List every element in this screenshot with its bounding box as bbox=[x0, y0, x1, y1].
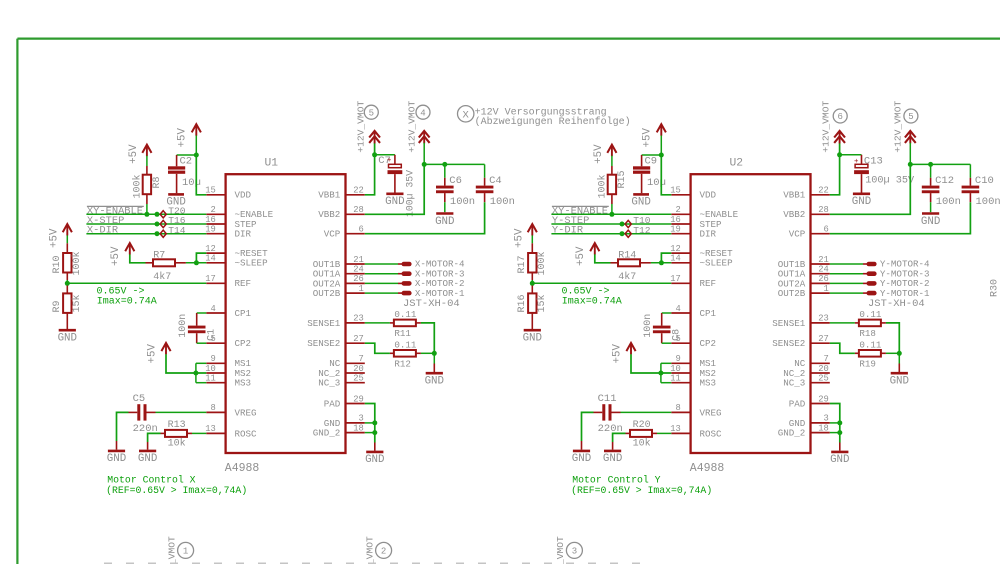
svg-text:17: 17 bbox=[670, 274, 681, 284]
capacitor C1 100n bbox=[188, 313, 206, 343]
pin 8 VREG of U1 bbox=[206, 403, 256, 418]
pin 24 OUT1A of U1 bbox=[313, 265, 365, 280]
junction bbox=[372, 420, 377, 425]
junction bbox=[659, 153, 664, 158]
wire bbox=[531, 280, 533, 283]
supply +5V above R7 bbox=[125, 243, 134, 255]
svg-text:4: 4 bbox=[211, 304, 216, 314]
supply +5V above R10 bbox=[63, 224, 72, 236]
resistor R10 100k bbox=[63, 243, 71, 280]
pin 12 ~RESET of U2 bbox=[670, 244, 733, 259]
wire bbox=[196, 382, 206, 384]
wire bbox=[660, 363, 662, 382]
wire bbox=[374, 443, 376, 451]
svg-text:15: 15 bbox=[670, 186, 681, 196]
junction bbox=[432, 351, 437, 356]
resistor R20 10k bbox=[626, 430, 658, 437]
testpoint T12 bbox=[625, 230, 631, 237]
wire bbox=[612, 442, 614, 450]
pin 13 ROSC of U1 bbox=[205, 424, 257, 439]
svg-text:10µ: 10µ bbox=[647, 177, 666, 189]
pin 2 ~ENABLE of U1 bbox=[206, 205, 273, 220]
svg-text:~SLEEP: ~SLEEP bbox=[235, 258, 269, 269]
svg-text:CP2: CP2 bbox=[235, 338, 252, 349]
wire bbox=[186, 262, 206, 264]
svg-text:17: 17 bbox=[205, 274, 216, 284]
wire bbox=[621, 411, 672, 413]
wire bbox=[421, 352, 434, 354]
circled number 2 bbox=[376, 542, 392, 558]
svg-text:Motor Control X: Motor Control X bbox=[107, 474, 195, 485]
ground under PAD bbox=[365, 452, 384, 466]
pin 6 VCP of U2 bbox=[789, 225, 830, 240]
svg-text:26: 26 bbox=[818, 274, 829, 284]
svg-text:GND_2: GND_2 bbox=[778, 428, 806, 439]
svg-text:X-DIR: X-DIR bbox=[87, 225, 118, 237]
svg-text:100k: 100k bbox=[132, 174, 144, 198]
svg-text:GND: GND bbox=[523, 333, 542, 345]
svg-text:5: 5 bbox=[908, 112, 913, 122]
svg-text:VBB2: VBB2 bbox=[783, 209, 805, 220]
pin 12 ~RESET of U1 bbox=[205, 244, 268, 259]
wire bbox=[66, 280, 68, 283]
pin 28 VBB2 of U1 bbox=[318, 205, 365, 220]
supply +5V above R14 bbox=[590, 243, 599, 255]
circled number 6 bbox=[833, 109, 847, 123]
svg-text:100n: 100n bbox=[450, 196, 475, 208]
junction bbox=[194, 153, 199, 158]
junction bbox=[194, 260, 199, 265]
svg-text:GND: GND bbox=[852, 196, 871, 208]
pin 1 OUT2B of U2 bbox=[778, 284, 830, 299]
svg-text:A4988: A4988 bbox=[225, 462, 260, 475]
circled number 5 bbox=[364, 105, 378, 119]
connector pin Y-MOTOR-2 bbox=[830, 278, 930, 289]
wire bbox=[840, 154, 862, 156]
pin 11 MS3 of U2 bbox=[670, 374, 716, 389]
svg-text:0.11: 0.11 bbox=[859, 309, 882, 320]
pin 11 MS3 of U1 bbox=[205, 374, 251, 389]
wire rail bbox=[910, 163, 970, 165]
wire net GND bbox=[830, 404, 840, 443]
svg-text:R8: R8 bbox=[152, 176, 163, 188]
svg-text:VBB2: VBB2 bbox=[318, 209, 340, 220]
svg-text:8: 8 bbox=[211, 403, 216, 413]
wire bbox=[660, 136, 662, 156]
svg-text:29: 29 bbox=[818, 394, 829, 404]
wire bbox=[611, 204, 613, 214]
wire bbox=[423, 143, 425, 165]
ground under R9 bbox=[58, 330, 77, 344]
wire bbox=[662, 342, 672, 344]
svg-text:100k: 100k bbox=[71, 251, 83, 275]
capacitor C9 10u bbox=[633, 155, 650, 193]
capacitor C2 10u bbox=[168, 155, 185, 193]
svg-text:4: 4 bbox=[420, 108, 425, 118]
svg-text:CP1: CP1 bbox=[235, 308, 252, 319]
wire bbox=[66, 235, 68, 243]
pin 14 ~SLEEP of U1 bbox=[205, 254, 268, 269]
svg-text:X-MOTOR-1: X-MOTOR-1 bbox=[415, 288, 465, 299]
wire bbox=[661, 253, 671, 263]
svg-text:7: 7 bbox=[824, 354, 829, 364]
testpoint T16 bbox=[160, 220, 166, 227]
svg-text:+12V_VMOT: +12V_VMOT bbox=[407, 101, 418, 153]
note circled X bbox=[458, 106, 474, 122]
svg-text:4: 4 bbox=[676, 304, 681, 314]
pin 9 MS1 of U2 bbox=[671, 354, 716, 369]
svg-text:GND: GND bbox=[890, 376, 909, 388]
capacitor C8 100n bbox=[653, 313, 671, 343]
supply +5V above R17 bbox=[528, 224, 537, 236]
ground under sense resistors bbox=[425, 373, 444, 387]
supply +12V_VMOT bbox=[905, 131, 916, 144]
svg-text:21: 21 bbox=[818, 255, 829, 265]
svg-text:Imax=0.74A: Imax=0.74A bbox=[97, 296, 157, 307]
svg-text:C11: C11 bbox=[598, 393, 617, 405]
svg-text:2: 2 bbox=[676, 205, 681, 215]
junction bbox=[372, 152, 377, 157]
wire bbox=[662, 312, 672, 314]
svg-text:MS3: MS3 bbox=[700, 378, 717, 389]
ground under C11 bbox=[572, 451, 591, 465]
junction bbox=[658, 371, 663, 376]
connector pin Y-MOTOR-1 bbox=[830, 288, 930, 299]
wire bbox=[631, 354, 671, 373]
connector pin X-MOTOR-1 bbox=[365, 288, 465, 299]
pin 15 VDD of U2 bbox=[670, 186, 716, 201]
svg-text:R15: R15 bbox=[617, 170, 628, 188]
pin 19 DIR of U1 bbox=[205, 225, 251, 240]
svg-text:23: 23 bbox=[818, 314, 829, 324]
pin 27 SENSE2 of U1 bbox=[307, 334, 365, 349]
wire net SENSE2 bbox=[365, 343, 390, 353]
ground under C13 bbox=[852, 194, 871, 208]
svg-text:24: 24 bbox=[818, 265, 829, 275]
ground under sense resistors bbox=[890, 373, 909, 387]
junction bbox=[155, 212, 160, 217]
wire net X-STEP bbox=[86, 223, 206, 225]
pin 26 OUT2A of U2 bbox=[778, 274, 830, 289]
junction bbox=[837, 152, 842, 157]
svg-text:GND: GND bbox=[365, 454, 384, 466]
svg-text:19: 19 bbox=[205, 225, 216, 235]
wire bbox=[642, 154, 662, 156]
svg-text:C1: C1 bbox=[207, 329, 218, 341]
svg-text:VCP: VCP bbox=[789, 229, 806, 240]
svg-text:Imax=0.74A: Imax=0.74A bbox=[562, 296, 622, 307]
svg-text:15: 15 bbox=[205, 186, 216, 196]
svg-text:100n: 100n bbox=[643, 314, 654, 338]
wire bbox=[433, 364, 435, 373]
wire net X-DIR bbox=[86, 233, 206, 235]
svg-text:GND: GND bbox=[631, 197, 650, 209]
connector pin X-MOTOR-4 bbox=[365, 259, 465, 270]
wire bbox=[611, 156, 613, 166]
supply +5V for MS pins bbox=[626, 343, 635, 355]
wire bbox=[365, 164, 424, 214]
svg-text:(REF=0.65V > Imax=0,74A): (REF=0.65V > Imax=0,74A) bbox=[106, 485, 247, 496]
svg-text:+5V: +5V bbox=[593, 144, 605, 164]
svg-text:VBB1: VBB1 bbox=[318, 190, 341, 201]
svg-text:+5V: +5V bbox=[110, 246, 122, 266]
junction bbox=[442, 162, 447, 167]
svg-text:REF: REF bbox=[700, 278, 717, 289]
wire bbox=[116, 441, 118, 450]
wire bbox=[830, 422, 840, 424]
svg-text:VREG: VREG bbox=[235, 407, 257, 418]
svg-text:0.11: 0.11 bbox=[394, 340, 417, 351]
svg-text:100µ 35V: 100µ 35V bbox=[404, 170, 415, 217]
wire bbox=[582, 412, 594, 441]
junction bbox=[422, 162, 427, 167]
svg-text:+5V: +5V bbox=[642, 128, 654, 148]
wire bbox=[365, 432, 375, 434]
wire bbox=[146, 204, 148, 214]
pin 16 STEP of U1 bbox=[205, 215, 257, 230]
resistor R11 0.11 bbox=[390, 320, 421, 327]
wire net SENSE1 bbox=[830, 322, 855, 324]
svg-text:PAD: PAD bbox=[789, 398, 806, 409]
svg-text:Y-MOTOR-1: Y-MOTOR-1 bbox=[880, 288, 930, 299]
wire net Y-STEP bbox=[551, 223, 671, 225]
pin 7 NC of U1 bbox=[329, 354, 365, 369]
junction node REF bbox=[530, 281, 535, 286]
ground under R20 bbox=[603, 451, 622, 465]
svg-text:+5V: +5V bbox=[146, 344, 158, 364]
svg-text:24: 24 bbox=[353, 265, 364, 275]
ground under R16 bbox=[523, 330, 542, 344]
svg-text:CP1: CP1 bbox=[700, 308, 717, 319]
svg-text:10: 10 bbox=[205, 364, 216, 374]
svg-text:+5V: +5V bbox=[514, 228, 526, 248]
connector pin Y-MOTOR-4 bbox=[830, 259, 930, 270]
svg-text:100n: 100n bbox=[976, 196, 1000, 208]
pin 22 VBB1 of U2 bbox=[783, 186, 830, 201]
wire bbox=[898, 364, 900, 373]
svg-text:15k: 15k bbox=[536, 294, 548, 312]
connector pin Y-MOTOR-3 bbox=[830, 268, 930, 279]
pin 27 SENSE2 of U2 bbox=[772, 334, 830, 349]
svg-text:22: 22 bbox=[353, 186, 364, 196]
svg-text:25: 25 bbox=[353, 374, 364, 384]
svg-text:1: 1 bbox=[824, 284, 829, 294]
wire bbox=[195, 363, 197, 382]
pin 1 OUT2B of U1 bbox=[313, 284, 365, 299]
pin 28 VBB2 of U2 bbox=[783, 205, 830, 220]
wire bbox=[661, 362, 671, 364]
svg-text:DIR: DIR bbox=[235, 229, 252, 240]
svg-text:21: 21 bbox=[353, 255, 364, 265]
svg-text:NC_3: NC_3 bbox=[783, 378, 805, 389]
svg-text:100k: 100k bbox=[536, 251, 548, 275]
svg-text:GND: GND bbox=[921, 216, 940, 228]
svg-text:13: 13 bbox=[205, 424, 216, 434]
capacitor C6 100n bbox=[436, 164, 454, 212]
wire bbox=[886, 352, 899, 354]
ground under C12 bbox=[921, 214, 940, 228]
svg-text:C6: C6 bbox=[449, 175, 462, 187]
svg-text:2: 2 bbox=[381, 547, 386, 557]
svg-text:6: 6 bbox=[359, 225, 364, 235]
svg-text:GND_2: GND_2 bbox=[313, 428, 341, 439]
svg-text:100n: 100n bbox=[936, 196, 961, 208]
wire net XY-ENABLE bbox=[551, 213, 671, 215]
pin 23 SENSE1 of U2 bbox=[772, 314, 830, 329]
svg-text:6: 6 bbox=[837, 112, 842, 122]
svg-text:25: 25 bbox=[818, 374, 829, 384]
pin 16 STEP of U2 bbox=[670, 215, 722, 230]
pin 3 GND of U2 bbox=[789, 414, 830, 429]
svg-text:(REF=0.65V > Imax=0,74A): (REF=0.65V > Imax=0,74A) bbox=[571, 485, 712, 496]
svg-text:GND: GND bbox=[138, 453, 157, 465]
wire bbox=[156, 411, 207, 413]
wire bbox=[531, 235, 533, 243]
svg-text:VDD: VDD bbox=[700, 190, 717, 201]
pin 2 ~ENABLE of U2 bbox=[671, 205, 738, 220]
svg-text:23: 23 bbox=[353, 314, 364, 324]
svg-text:18: 18 bbox=[818, 423, 829, 433]
wire bbox=[196, 253, 206, 263]
svg-text:SENSE1: SENSE1 bbox=[307, 318, 341, 329]
svg-text:REF: REF bbox=[235, 278, 252, 289]
svg-text:10µ: 10µ bbox=[182, 177, 201, 189]
supply +12V_VMOT bbox=[419, 131, 430, 144]
junction bbox=[837, 420, 842, 425]
pin 17 REF of U2 bbox=[670, 274, 716, 289]
wire bbox=[657, 432, 671, 434]
pin 14 ~SLEEP of U2 bbox=[670, 254, 733, 269]
svg-text:14: 14 bbox=[205, 254, 216, 264]
supply +5V above R8 bbox=[142, 145, 151, 157]
testpoint T20 bbox=[160, 211, 166, 218]
clipped text row (bottom edge) bbox=[104, 562, 648, 564]
svg-text:ROSC: ROSC bbox=[700, 428, 723, 439]
svg-text:GND: GND bbox=[425, 376, 444, 388]
pin 20 NC_2 of U2 bbox=[783, 364, 830, 379]
svg-text:OUT2B: OUT2B bbox=[778, 288, 806, 299]
svg-text:2: 2 bbox=[211, 205, 216, 215]
svg-text:GND: GND bbox=[385, 196, 404, 208]
svg-text:28: 28 bbox=[353, 205, 364, 215]
svg-text:10k: 10k bbox=[633, 438, 651, 450]
testpoint T10 bbox=[625, 220, 631, 227]
wire net Y-DIR bbox=[551, 233, 671, 235]
supply +12V_VMOT bbox=[834, 131, 845, 144]
junction bbox=[837, 430, 842, 435]
pin 15 VDD of U1 bbox=[205, 186, 251, 201]
supply +5V above pin VDD bbox=[192, 124, 201, 136]
circled number 5 bbox=[904, 109, 918, 123]
svg-text:GND: GND bbox=[830, 454, 849, 466]
svg-text:R19: R19 bbox=[859, 359, 876, 370]
wire bbox=[177, 154, 197, 156]
svg-text:1: 1 bbox=[183, 547, 188, 557]
wire net XY-ENABLE bbox=[86, 213, 206, 215]
svg-text:VREG: VREG bbox=[700, 407, 722, 418]
supply +5V above R15 bbox=[607, 145, 616, 157]
svg-text:0.11: 0.11 bbox=[859, 340, 882, 351]
resistor R12 0.11 bbox=[390, 350, 421, 357]
wire bbox=[830, 164, 911, 214]
pin 3 GND of U1 bbox=[324, 414, 365, 429]
capacitor C13 100u polarized bbox=[854, 155, 869, 193]
svg-text:SENSE1: SENSE1 bbox=[772, 318, 806, 329]
svg-text:PAD: PAD bbox=[324, 398, 341, 409]
pin 5 CP2 of U2 bbox=[671, 334, 716, 349]
svg-text:6: 6 bbox=[824, 225, 829, 235]
svg-text:R9: R9 bbox=[52, 300, 63, 312]
svg-text:11: 11 bbox=[205, 374, 216, 384]
svg-text:27: 27 bbox=[818, 334, 829, 344]
supply +5V above pin VDD bbox=[657, 124, 666, 136]
svg-text:C12: C12 bbox=[935, 175, 954, 187]
wire bbox=[197, 312, 207, 314]
junction bbox=[659, 260, 664, 265]
connector pin X-MOTOR-3 bbox=[365, 268, 465, 279]
capacitor C5 220n bbox=[129, 404, 156, 420]
circled number 3 bbox=[566, 542, 582, 558]
pin 25 NC_3 of U1 bbox=[318, 374, 365, 389]
svg-text:100n: 100n bbox=[490, 196, 515, 208]
pin 7 NC of U2 bbox=[794, 354, 830, 369]
wire net +12V_VMOT bbox=[830, 143, 840, 195]
wire net REF bbox=[67, 282, 206, 284]
wire bbox=[375, 154, 395, 156]
wire bbox=[196, 362, 206, 364]
ground under C6 bbox=[435, 214, 454, 228]
svg-text:C8: C8 bbox=[672, 329, 683, 341]
svg-text:29: 29 bbox=[353, 394, 364, 404]
svg-text:U1: U1 bbox=[265, 158, 279, 170]
ground under C7 bbox=[385, 194, 404, 208]
pin 6 VCP of U1 bbox=[324, 225, 365, 240]
svg-text:14: 14 bbox=[670, 254, 681, 264]
resistor R18 0.11 bbox=[855, 320, 886, 327]
svg-text:C10: C10 bbox=[975, 175, 994, 187]
svg-text:X: X bbox=[463, 110, 470, 122]
pin 29 PAD of U2 bbox=[789, 394, 830, 409]
testpoint T14 bbox=[160, 230, 166, 237]
svg-text:VBB1: VBB1 bbox=[783, 190, 806, 201]
svg-text:19: 19 bbox=[670, 225, 681, 235]
pin 10 MS2 of U2 bbox=[670, 364, 716, 379]
svg-text:12: 12 bbox=[205, 244, 216, 254]
svg-text:1: 1 bbox=[359, 284, 364, 294]
pin 8 VREG of U2 bbox=[671, 403, 721, 418]
junction bbox=[155, 222, 160, 227]
svg-text:+5V: +5V bbox=[611, 344, 623, 364]
pin 23 SENSE1 of U1 bbox=[307, 314, 365, 329]
svg-text:R11: R11 bbox=[394, 328, 411, 339]
pin 21 OUT1B of U2 bbox=[778, 255, 830, 270]
svg-text:+12V_VMOT: +12V_VMOT bbox=[555, 536, 566, 564]
ground under PAD bbox=[830, 452, 849, 466]
svg-text:100k: 100k bbox=[597, 174, 609, 198]
wire bbox=[130, 254, 146, 262]
svg-text:CP2: CP2 bbox=[700, 338, 717, 349]
svg-text:4k7: 4k7 bbox=[153, 271, 171, 283]
svg-text:100n: 100n bbox=[178, 314, 189, 338]
circled number 1 bbox=[178, 542, 194, 558]
svg-text:R13: R13 bbox=[168, 420, 186, 431]
pin 26 OUT2A of U1 bbox=[313, 274, 365, 289]
resistor R15 100k bbox=[608, 166, 616, 204]
junction bbox=[609, 212, 614, 217]
pin 13 ROSC of U2 bbox=[670, 424, 722, 439]
svg-text:T12: T12 bbox=[633, 225, 651, 236]
svg-text:DIR: DIR bbox=[700, 229, 717, 240]
